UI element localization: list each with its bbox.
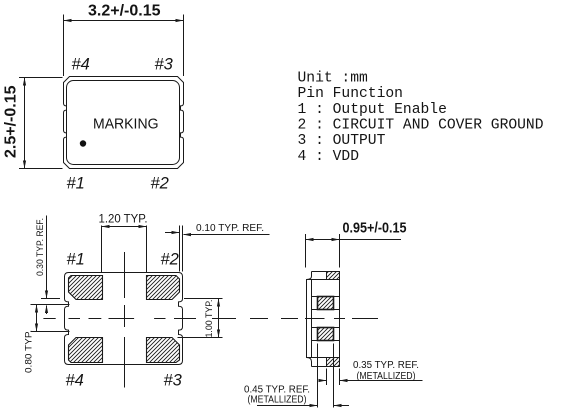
svg-text:2 : CIRCUIT AND COVER GROUND: 2 : CIRCUIT AND COVER GROUND <box>298 118 544 134</box>
svg-text:0.95+/-0.15: 0.95+/-0.15 <box>343 220 407 237</box>
svg-text:1.00 TYP.: 1.00 TYP. <box>204 300 215 338</box>
extension line right <box>183 15 185 77</box>
svg-text:Unit :mm: Unit :mm <box>298 71 369 87</box>
svg-text:#1: #1 <box>67 175 85 193</box>
0.10 extension line body edge <box>182 226 184 272</box>
0.45 extension line left <box>317 344 319 408</box>
0.45 dim arrows <box>257 405 317 407</box>
0.35 dim arrows <box>319 380 326 382</box>
svg-text:#3: #3 <box>155 56 174 74</box>
svg-text:Pin Function: Pin Function <box>298 86 403 102</box>
extension line pad1 inner edge <box>101 226 103 273</box>
svg-text:0.30 TYP. REF.: 0.30 TYP. REF. <box>35 218 46 276</box>
0.95 extension line right <box>339 234 341 268</box>
1.00 tick lower <box>178 337 223 339</box>
side view top edge <box>312 271 340 273</box>
extension tick notch2 center <box>31 331 70 333</box>
0.30 arrow lower <box>46 306 48 315</box>
mid block 2 hatch <box>318 328 334 341</box>
svg-text:1 : Output Enable: 1 : Output Enable <box>298 102 447 118</box>
side view top-left step <box>307 272 312 280</box>
svg-text:#4: #4 <box>72 56 90 74</box>
1.00 tick upper <box>184 298 223 300</box>
svg-text:(METALLIZED): (METALLIZED) <box>248 395 307 406</box>
svg-text:0.35 TYP. REF.: 0.35 TYP. REF. <box>353 360 419 371</box>
dimension 1.00 line <box>218 299 220 338</box>
extension tick top <box>19 77 63 79</box>
svg-text:#4: #4 <box>66 372 84 390</box>
dimension 3.2 line <box>64 20 184 22</box>
horizontal centerline <box>43 318 378 320</box>
dimension 0.80 line <box>36 305 38 332</box>
mid block 1 outline <box>312 297 340 310</box>
svg-text:1.20 TYP.: 1.20 TYP. <box>99 212 148 226</box>
dimension 2.5 line <box>24 78 26 169</box>
vertical centerline <box>124 252 126 388</box>
svg-text:4 : VDD: 4 : VDD <box>298 149 360 165</box>
svg-text:2.5+/-0.15: 2.5+/-0.15 <box>3 85 20 158</box>
svg-text:3.2+/-0.15: 3.2+/-0.15 <box>88 3 161 20</box>
svg-text:MARKING: MARKING <box>93 117 159 133</box>
bottom castellation hatch <box>327 358 340 367</box>
0.45 extension line right <box>333 344 335 408</box>
pin 1 index dot <box>80 140 86 146</box>
side view right edge <box>339 272 341 367</box>
pad #4 (bottom-left, hatched) <box>69 338 103 363</box>
dimension 0.95 line <box>306 239 402 241</box>
svg-text:(METALLIZED): (METALLIZED) <box>357 371 416 382</box>
svg-text:3 : OUTPUT: 3 : OUTPUT <box>298 133 386 149</box>
0.10 arrow line left <box>165 232 179 234</box>
extension tick notch1 center <box>31 304 70 306</box>
pad #1 (top-left, hatched) <box>69 276 103 300</box>
svg-text:0.10 TYP. REF.: 0.10 TYP. REF. <box>196 223 264 234</box>
inner left vertical <box>311 280 313 358</box>
pad #3 (bottom-right, hatched) <box>147 338 180 363</box>
0.95 extension line left <box>305 234 307 268</box>
0.35 extension line left <box>326 369 328 386</box>
svg-text:#1: #1 <box>67 251 85 269</box>
base seam line <box>307 357 340 359</box>
side view left outer edge <box>306 279 308 358</box>
package body outer contour with corner steps and side notches <box>64 77 184 169</box>
extension line pad2 inner edge <box>146 226 148 273</box>
pad #2 (top-right, hatched) <box>147 276 180 300</box>
top castellation hatch <box>327 272 340 280</box>
0.30 arrow line upper <box>46 216 48 299</box>
0.30 tick upper <box>41 298 60 300</box>
svg-text:#2: #2 <box>161 251 179 269</box>
svg-text:#2: #2 <box>151 175 169 193</box>
0.10 extension line pad edge <box>179 226 181 272</box>
side view bottom-left step <box>307 358 312 367</box>
extension tick bottom <box>19 168 63 170</box>
svg-text:#3: #3 <box>164 372 183 390</box>
mid block 2 outline <box>312 328 340 341</box>
0.35 extension line right <box>339 369 341 386</box>
lid seam line <box>307 279 340 281</box>
land pattern body outline with castellation notches <box>65 273 183 365</box>
svg-text:0.80 TYP.: 0.80 TYP. <box>24 330 35 373</box>
mid block 1 hatch <box>318 297 334 310</box>
package body inner contour (lid) <box>67 81 180 165</box>
side view bottom edge <box>312 366 340 368</box>
dimension 1.20 line <box>102 226 147 228</box>
0.10 leader under text <box>184 234 270 236</box>
extension line left <box>63 15 65 77</box>
